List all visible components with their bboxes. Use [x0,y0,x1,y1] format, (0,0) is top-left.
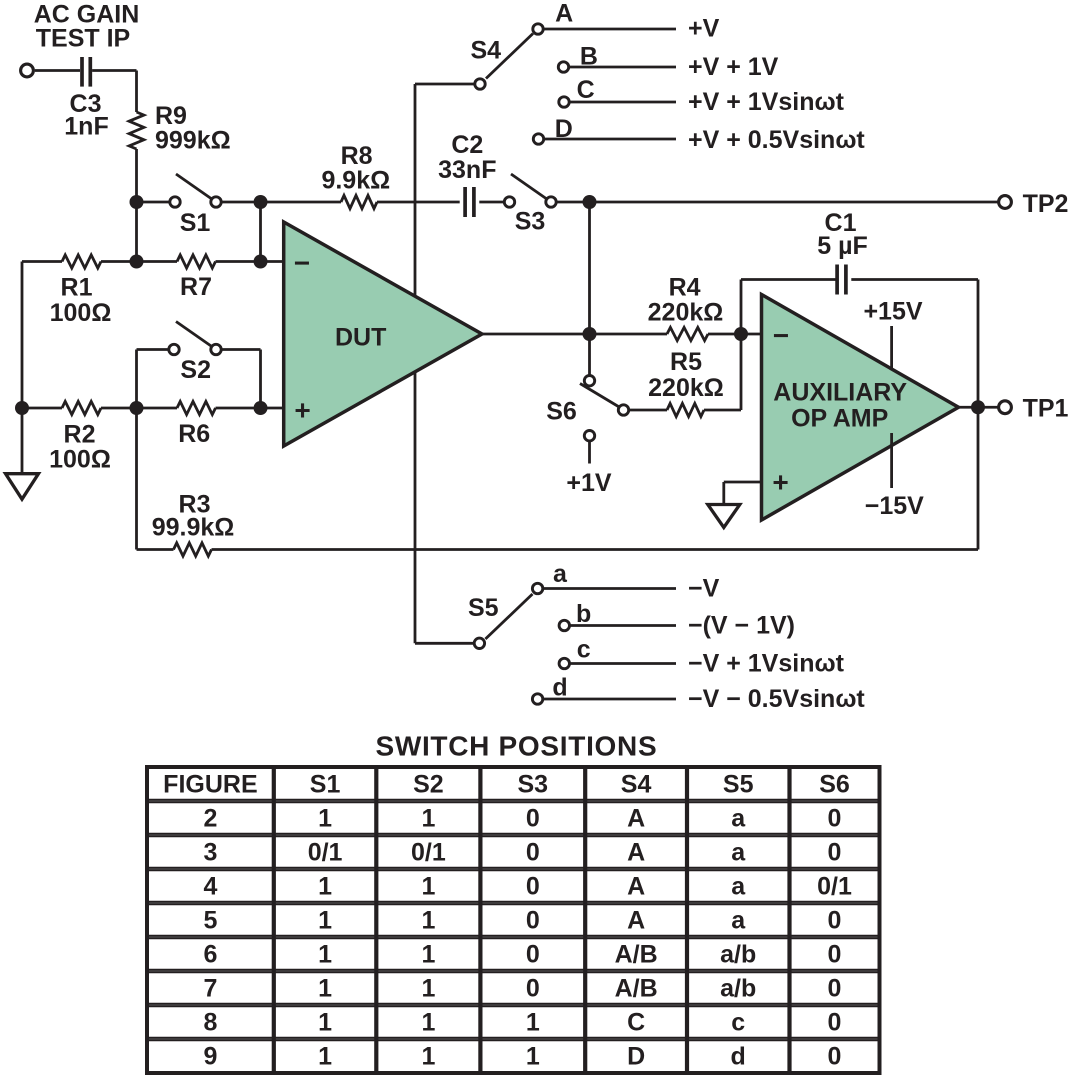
svg-text:6: 6 [203,941,217,969]
svg-text:0: 0 [526,805,540,833]
svg-text:0: 0 [828,975,842,1003]
svg-text:S4: S4 [621,771,652,799]
svg-text:−(V − 1V): −(V − 1V) [688,612,795,640]
svg-text:d: d [731,1043,746,1071]
svg-text:d: d [552,674,567,702]
svg-text:0: 0 [526,907,540,935]
svg-text:b: b [576,600,591,628]
svg-text:+V: +V [688,15,720,43]
svg-text:−V + 1Vsinωt: −V + 1Vsinωt [688,649,845,677]
svg-text:S2: S2 [413,771,444,799]
svg-text:1: 1 [421,873,435,901]
svg-text:99.9kΩ: 99.9kΩ [152,514,235,542]
svg-text:a: a [731,907,746,935]
svg-text:S6: S6 [546,398,577,426]
svg-text:C2: C2 [451,131,483,159]
svg-text:S5: S5 [468,594,499,622]
svg-text:0: 0 [526,873,540,901]
svg-text:−: − [294,248,310,279]
svg-text:0: 0 [828,805,842,833]
svg-text:S1: S1 [310,771,341,799]
svg-text:0: 0 [526,941,540,969]
svg-text:1: 1 [421,1009,435,1037]
svg-text:S3: S3 [518,771,549,799]
svg-text:8: 8 [203,1009,217,1037]
svg-text:a: a [731,805,746,833]
svg-text:A: A [627,873,645,901]
svg-text:+V + 0.5Vsinωt: +V + 0.5Vsinωt [688,126,865,154]
svg-text:A/B: A/B [615,941,658,969]
svg-text:−V − 0.5Vsinωt: −V − 0.5Vsinωt [688,685,865,713]
svg-text:0: 0 [828,907,842,935]
svg-text:c: c [577,635,591,663]
svg-text:R7: R7 [180,273,212,301]
svg-text:1: 1 [318,1009,332,1037]
svg-text:c: c [731,1009,745,1037]
svg-text:DUT: DUT [335,324,386,352]
svg-text:0/1: 0/1 [817,873,852,901]
svg-text:C: C [577,76,595,104]
svg-text:1: 1 [421,975,435,1003]
svg-text:SWITCH POSITIONS: SWITCH POSITIONS [375,730,657,761]
svg-text:5: 5 [203,907,217,935]
svg-text:R2: R2 [64,421,96,449]
svg-text:9.9kΩ: 9.9kΩ [321,167,390,195]
svg-text:R1: R1 [61,274,93,302]
svg-text:220kΩ: 220kΩ [648,298,724,326]
svg-text:+1V: +1V [566,469,612,497]
svg-text:2: 2 [203,805,217,833]
svg-text:S1: S1 [180,209,211,237]
svg-text:100Ω: 100Ω [49,446,111,474]
svg-text:0: 0 [828,1009,842,1037]
svg-text:3: 3 [203,839,217,867]
svg-text:S3: S3 [515,208,546,236]
svg-text:+V + 1V: +V + 1V [688,53,779,81]
svg-text:D: D [627,1043,645,1071]
svg-text:0: 0 [526,839,540,867]
svg-text:A: A [627,805,645,833]
svg-text:S6: S6 [819,771,850,799]
svg-text:7: 7 [203,975,217,1003]
svg-text:D: D [555,115,573,143]
svg-text:TP2: TP2 [1023,190,1069,218]
svg-text:a/b: a/b [720,975,756,1003]
svg-text:C: C [627,1009,645,1037]
svg-text:OP AMP: OP AMP [791,405,888,433]
svg-text:0: 0 [828,1043,842,1071]
svg-text:a: a [731,873,746,901]
svg-text:R6: R6 [178,420,210,448]
svg-text:1: 1 [526,1043,540,1071]
svg-text:0/1: 0/1 [308,839,343,867]
svg-text:a/b: a/b [720,941,756,969]
svg-text:TEST IP: TEST IP [36,25,130,53]
svg-text:1: 1 [318,805,332,833]
svg-text:1: 1 [526,1009,540,1037]
svg-text:−: − [773,320,789,351]
svg-text:5 µF: 5 µF [817,232,868,260]
svg-text:AUXILIARY: AUXILIARY [773,379,907,407]
svg-text:R5: R5 [670,348,702,376]
svg-text:999kΩ: 999kΩ [155,127,231,155]
svg-text:B: B [580,42,598,70]
svg-text:−V: −V [688,574,720,602]
svg-text:1: 1 [318,975,332,1003]
svg-text:1: 1 [318,1043,332,1071]
svg-text:+: + [772,467,788,498]
svg-text:1: 1 [318,941,332,969]
svg-text:1: 1 [421,805,435,833]
svg-text:S4: S4 [471,37,502,65]
svg-text:9: 9 [203,1043,217,1071]
svg-text:1nF: 1nF [64,113,108,141]
svg-text:1: 1 [421,941,435,969]
svg-text:R4: R4 [669,274,701,302]
svg-text:A: A [555,0,573,28]
svg-text:0: 0 [828,839,842,867]
svg-text:1: 1 [421,1043,435,1071]
svg-text:100Ω: 100Ω [50,299,112,327]
svg-text:+V + 1Vsinωt: +V + 1Vsinωt [688,88,845,116]
svg-text:1: 1 [421,907,435,935]
svg-text:A/B: A/B [615,975,658,1003]
svg-text:33nF: 33nF [438,156,496,184]
svg-text:A: A [627,839,645,867]
svg-text:TP1: TP1 [1023,394,1069,422]
svg-text:−15V: −15V [865,492,924,520]
svg-text:220kΩ: 220kΩ [648,374,724,402]
svg-text:A: A [627,907,645,935]
svg-text:S5: S5 [723,771,754,799]
svg-text:FIGURE: FIGURE [163,771,257,799]
svg-text:a: a [553,560,568,588]
svg-text:S2: S2 [180,356,211,384]
svg-text:0/1: 0/1 [411,839,446,867]
svg-text:0: 0 [526,975,540,1003]
svg-text:a: a [731,839,746,867]
svg-text:1: 1 [318,873,332,901]
svg-text:+15V: +15V [863,298,922,326]
svg-text:+: + [294,395,310,426]
svg-text:0: 0 [828,941,842,969]
svg-text:4: 4 [203,873,217,901]
svg-text:1: 1 [318,907,332,935]
